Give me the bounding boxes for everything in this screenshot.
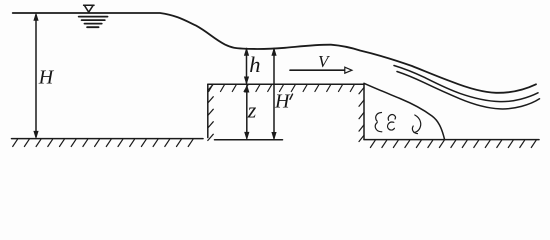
water level symbol bar 1 xyxy=(79,16,108,18)
water level symbol bar 2 xyxy=(82,19,105,21)
nappe streamline 2 xyxy=(394,66,538,102)
weir downstream wall xyxy=(363,84,365,139)
water surface (upstream line, drawdown S-curve, crest region, downstream nappe top) xyxy=(13,13,536,93)
weir upstream wall xyxy=(207,84,209,137)
svg-text:H: H xyxy=(274,91,291,113)
downstream wall hatching xyxy=(359,88,364,142)
crest hatching xyxy=(209,85,354,92)
water level symbol bar 4 xyxy=(87,26,99,28)
ground line under weir (dimension base) xyxy=(215,139,283,141)
velocity arrow V xyxy=(290,67,352,73)
eddy curl small bottom xyxy=(388,122,395,130)
dimension H-prime arrow xyxy=(272,48,276,139)
dimension z arrow xyxy=(245,85,249,139)
ground line right xyxy=(364,139,539,141)
prime mark of H-prime xyxy=(290,94,293,99)
ground hatching left xyxy=(13,139,193,146)
eddy curl E-shape xyxy=(375,113,382,132)
weir crest line xyxy=(208,83,364,85)
nappe streamline 3 xyxy=(397,72,540,109)
dividing streamline (jet lower boundary to toe) xyxy=(364,83,445,139)
svg-text:z: z xyxy=(247,98,257,123)
dimension H arrow xyxy=(34,13,38,138)
ground hatching right xyxy=(370,140,536,147)
upstream wall hatching xyxy=(208,84,214,140)
svg-text:h: h xyxy=(249,52,260,77)
ground line left xyxy=(12,138,204,140)
water level symbol bar 3 xyxy=(85,23,102,25)
water level symbol triangle xyxy=(84,5,94,12)
eddy curl right paren xyxy=(414,115,421,133)
dimension h arrow xyxy=(244,48,248,84)
svg-text:V: V xyxy=(318,52,331,71)
svg-text:H: H xyxy=(38,67,55,89)
eddy curl small top xyxy=(388,115,395,121)
eddy curl right hook xyxy=(412,126,417,134)
